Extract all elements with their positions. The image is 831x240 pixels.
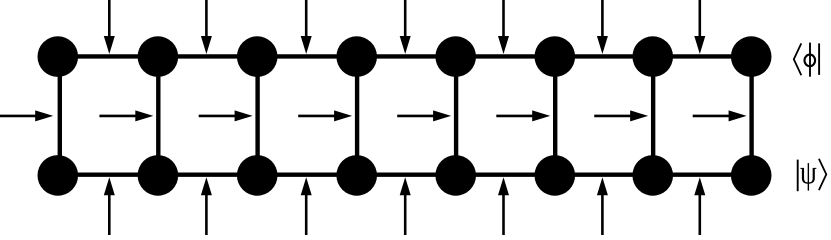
node A6 (top tensor) bbox=[535, 36, 576, 77]
node A5 (top tensor) bbox=[435, 36, 476, 77]
arrow down D2 bbox=[201, 0, 212, 54]
node B4 (bottom tensor) bbox=[336, 155, 377, 196]
node B3 (bottom tensor) bbox=[237, 155, 278, 196]
left angle bracket bbox=[794, 43, 802, 75]
node B5 (bottom tensor) bbox=[435, 155, 476, 196]
arrow right M1 bbox=[0, 110, 53, 121]
node B7 (bottom tensor) bbox=[632, 155, 673, 196]
arrow down D3 bbox=[301, 0, 312, 54]
psi glyph bbox=[800, 163, 816, 191]
ket vertical bar bbox=[797, 160, 799, 192]
arrow down D5 bbox=[498, 0, 509, 54]
phi stem bbox=[809, 43, 811, 77]
wire rung 8 bbox=[749, 57, 753, 176]
bra vertical bar bbox=[818, 43, 820, 75]
phi bowl bbox=[805, 55, 816, 67]
arrow down D7 bbox=[694, 0, 705, 54]
wire rung 6 bbox=[553, 57, 557, 176]
arrow right M5 bbox=[397, 110, 451, 121]
arrow right M3 bbox=[199, 110, 253, 121]
node B8 (bottom tensor) bbox=[731, 155, 772, 196]
node A3 (top tensor) bbox=[237, 36, 278, 77]
arrow right M8 bbox=[693, 110, 747, 121]
node A7 (top tensor) bbox=[632, 36, 673, 77]
node B2 (bottom tensor) bbox=[138, 155, 179, 196]
arrow up U6 bbox=[597, 177, 608, 235]
arrow down D6 bbox=[597, 0, 608, 54]
arrow down D4 bbox=[400, 0, 411, 54]
node A4 (top tensor) bbox=[336, 36, 377, 77]
node label ket psi bbox=[798, 159, 827, 191]
wire rung 5 bbox=[454, 57, 458, 176]
node label bra phi bbox=[794, 43, 819, 77]
arrow up U2 bbox=[201, 177, 212, 235]
arrow up U1 bbox=[104, 177, 115, 235]
node B1 (bottom tensor) bbox=[38, 155, 79, 196]
wire rung 4 bbox=[355, 57, 359, 176]
arrow up U5 bbox=[498, 177, 509, 235]
arrow right M2 bbox=[99, 110, 153, 121]
arrow right M7 bbox=[594, 110, 648, 121]
node B6 (bottom tensor) bbox=[535, 155, 576, 196]
node A1 (top tensor) bbox=[38, 36, 79, 77]
arrow right M4 bbox=[298, 110, 352, 121]
node A2 (top tensor) bbox=[138, 36, 179, 77]
arrow up U7 bbox=[694, 177, 705, 235]
wire rung 3 bbox=[255, 57, 259, 176]
arrow right M6 bbox=[496, 110, 550, 121]
wire rung 7 bbox=[651, 57, 655, 176]
arrow down D1 bbox=[104, 0, 115, 54]
node A8 (top tensor) bbox=[731, 36, 772, 77]
wire rung 2 bbox=[156, 57, 160, 176]
wire top rail bbox=[58, 54, 751, 58]
right angle bracket bbox=[819, 159, 826, 190]
arrow up U3 bbox=[301, 177, 312, 235]
wire rung 1 bbox=[58, 57, 62, 176]
arrow up U4 bbox=[400, 177, 411, 235]
wire bottom rail bbox=[58, 172, 751, 176]
